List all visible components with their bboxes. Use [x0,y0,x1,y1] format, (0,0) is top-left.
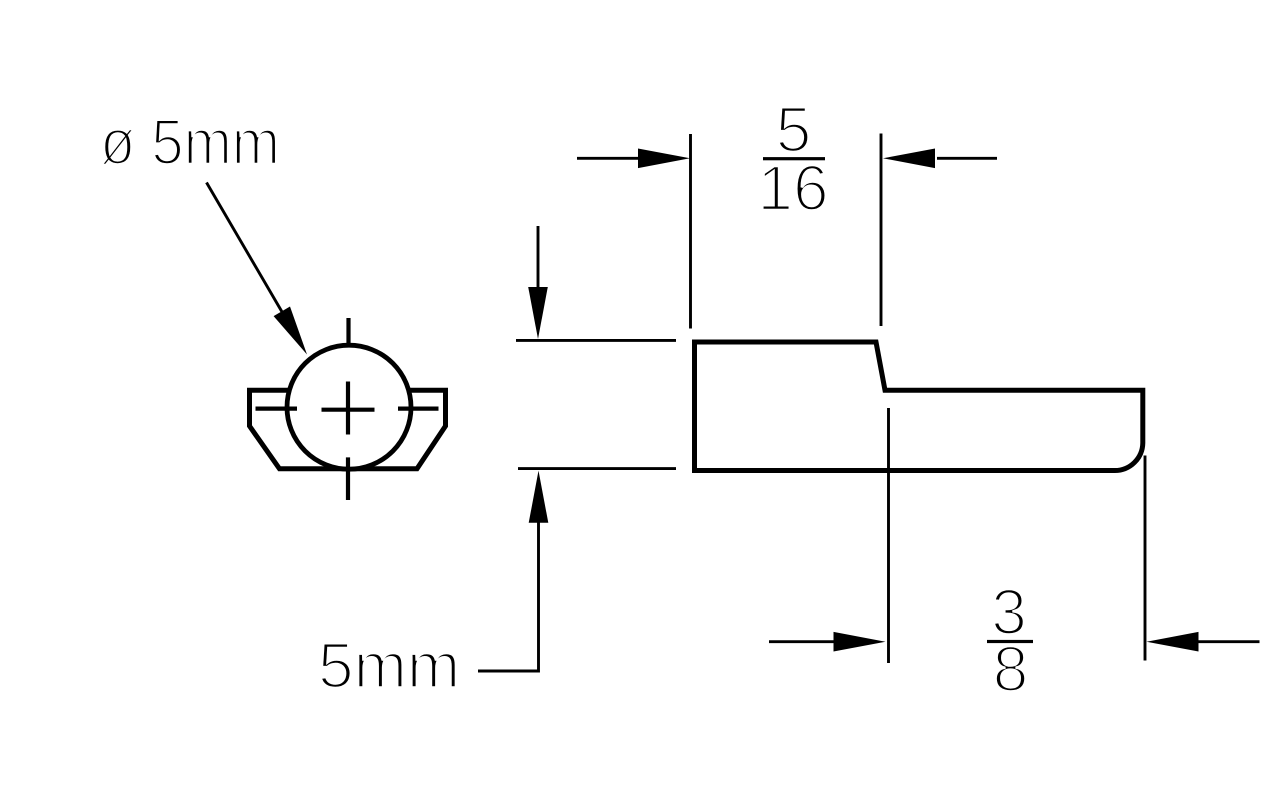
front view: centerline tick top [346,318,350,345]
side view: part outline [695,342,1143,471]
dimension 5/16: right arrowhead pointing left [883,149,935,169]
svg-text:16: 16 [757,152,828,224]
dimension 5mm: down arrow shaft [537,226,540,290]
front view: centerline tick left [256,407,298,411]
dimension 5/16: right dimension line [937,157,997,160]
dimension 3/8: right dimension line [1198,640,1260,643]
dimension 5/16: fraction bar [763,157,825,160]
svg-text:5mm: 5mm [318,630,460,702]
dimension 5/16: left extension line [689,134,692,329]
dimension 3/8: left extension line [887,408,890,663]
dimension 3/8: left dimension line [769,640,836,643]
front view: blade wing outline [250,390,446,469]
dimension 5/16: left dimension line [577,157,640,160]
dimension 5mm: up arrowhead [529,471,549,523]
front view: centerline tick bottom [346,457,350,500]
dimension 5mm: upper dimension line [516,339,676,342]
svg-text:ø 5mm: ø 5mm [100,106,280,178]
dimension 5/16: left arrowhead pointing right [638,149,690,169]
leader line from ø 5mm to circle [207,183,286,318]
front view: centerline tick right [398,407,439,411]
dimension 5mm: lower dimension line [518,467,676,470]
dimension 5/16: right extension line [880,134,883,327]
leader arrowhead [274,307,307,355]
front view: center cross [322,382,375,435]
front view: pin circle (5mm) [287,345,411,469]
dimension 3/8: right extension line [1144,456,1147,661]
dimension 5mm: leader from text with up arrow shaft [478,522,539,672]
dimension 3/8: right arrowhead pointing left [1147,632,1199,652]
svg-text:8: 8 [993,633,1029,705]
dimension 3/8: fraction bar [987,640,1033,643]
dimension 3/8: left arrowhead pointing right [834,632,886,652]
dimension 5mm: down arrowhead [528,287,548,339]
